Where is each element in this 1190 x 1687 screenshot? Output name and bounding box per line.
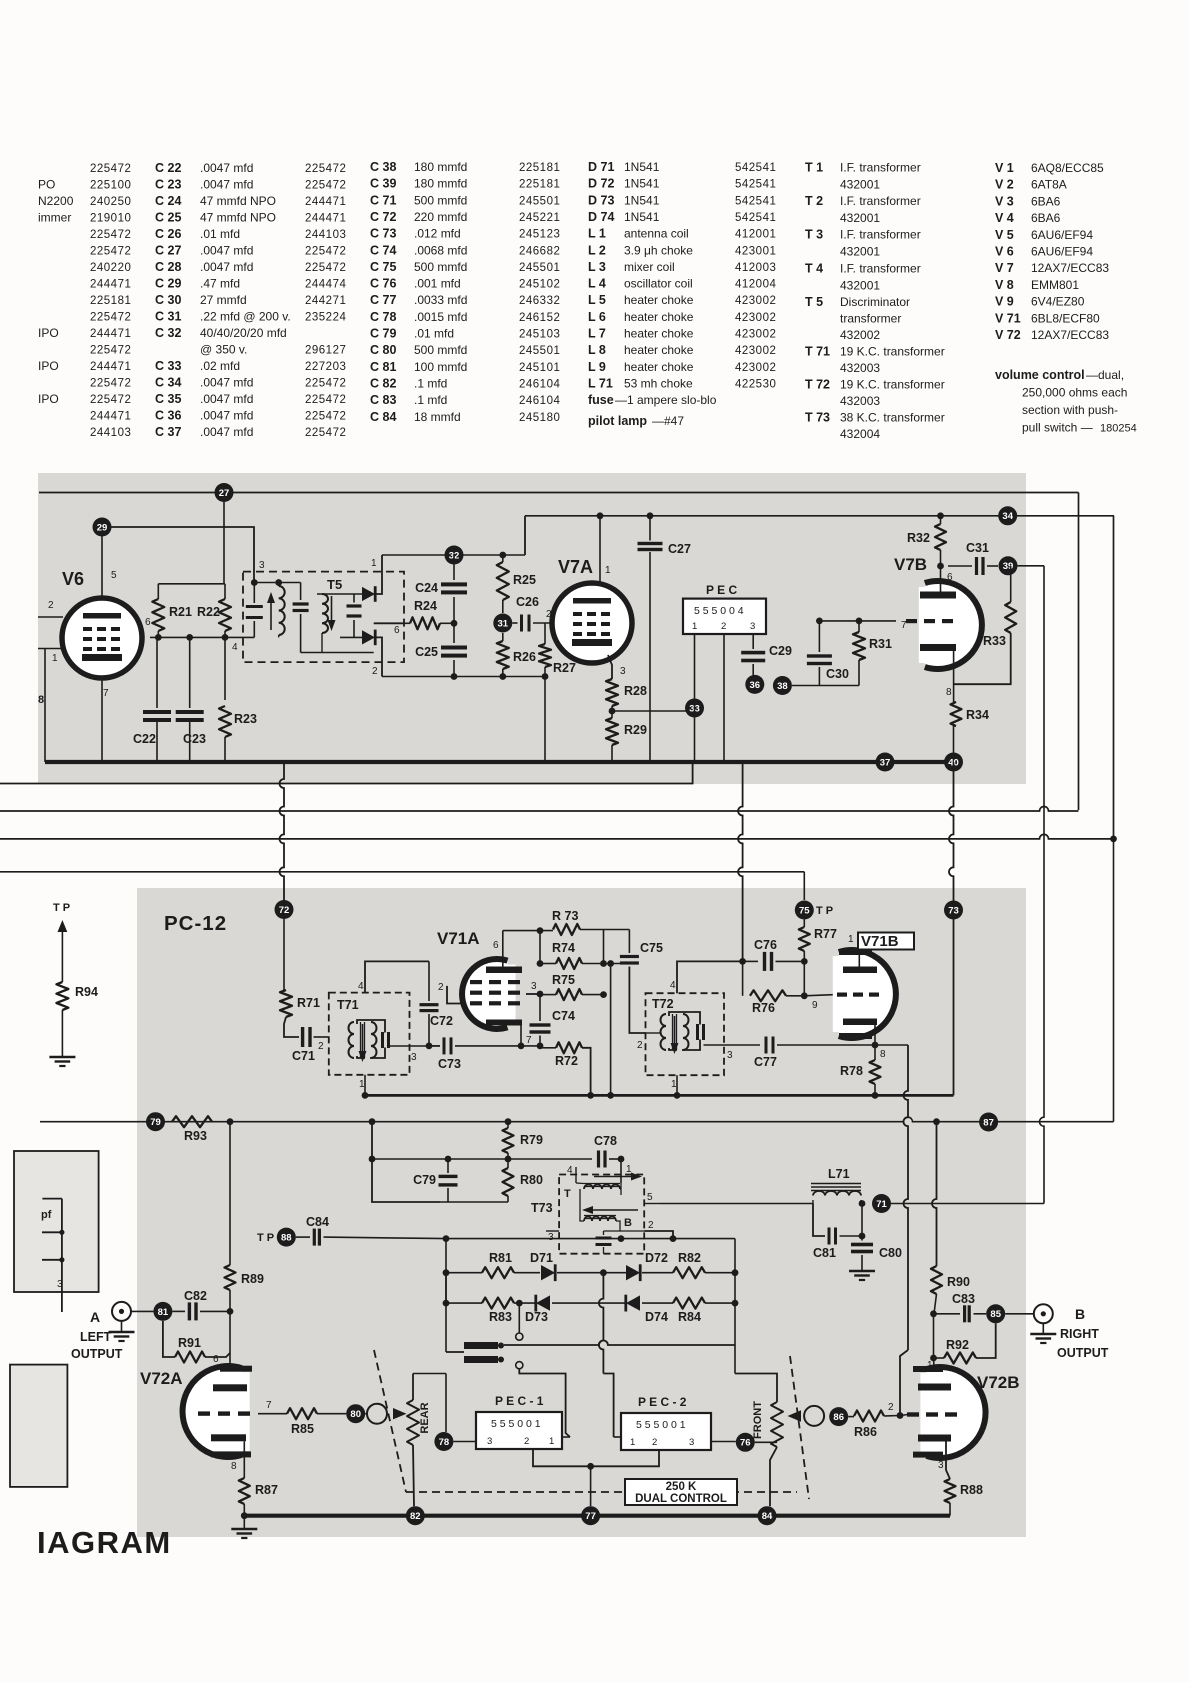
svg-text:80: 80: [350, 1409, 361, 1420]
svg-text:8: 8: [231, 1461, 237, 1472]
resistor R24: [410, 617, 440, 629]
svg-text:.1 mfd: .1 mfd: [414, 376, 447, 390]
svg-text:C 39: C 39: [370, 177, 396, 191]
wire PEC pin3 to C29: [752, 634, 754, 649]
svg-text:75: 75: [799, 905, 810, 916]
wire 1044 corner to node 71 row: [882, 1203, 1045, 1205]
resistor R25: [497, 562, 509, 600]
svg-text:fuse: fuse: [588, 393, 614, 407]
diode D71: [541, 1265, 555, 1280]
svg-text:.0047 mfd: .0047 mfd: [200, 161, 253, 175]
svg-text:225472: 225472: [90, 229, 131, 241]
svg-text:6BA6: 6BA6: [1031, 194, 1061, 208]
svg-text:OUTPUT: OUTPUT: [1057, 1346, 1109, 1360]
svg-text:PC-12: PC-12: [164, 912, 227, 935]
svg-text:—dual,: —dual,: [1086, 368, 1124, 382]
svg-text:REAR: REAR: [419, 1402, 431, 1433]
svg-text:R77: R77: [814, 927, 837, 941]
svg-text:C71: C71: [292, 1049, 315, 1063]
left partial box upper: [14, 1151, 99, 1292]
wire left vertical to ground bus: [44, 649, 46, 763]
node 34: [998, 506, 1017, 525]
wire rear pot top to node78 riser: [413, 1373, 446, 1375]
svg-text:2: 2: [524, 1436, 529, 1447]
svg-text:C 84: C 84: [370, 410, 396, 424]
T72 pin3 exit to C77: [704, 1044, 761, 1046]
wire V7B cathode drop x=954 through node 73: [949, 762, 954, 1095]
svg-text:B: B: [624, 1217, 632, 1229]
V72A pin7 grid wire: [258, 1413, 287, 1415]
svg-text:88: 88: [281, 1233, 292, 1244]
svg-text:C 74: C 74: [370, 243, 396, 257]
wire V7B pin7 row: [819, 620, 896, 622]
T72 pin1 drop: [676, 1075, 678, 1095]
svg-text:38: 38: [777, 681, 788, 692]
svg-text:246104: 246104: [519, 395, 560, 407]
T72 pin4 riser: [677, 961, 743, 993]
svg-text:423002: 423002: [735, 295, 776, 307]
V7B cathode bar: [920, 644, 956, 651]
resistor R85: [287, 1408, 317, 1419]
V71A anode bar: [486, 967, 522, 974]
svg-text:C 83: C 83: [370, 393, 396, 407]
svg-text:C29: C29: [769, 644, 792, 658]
svg-text:pull switch —: pull switch —: [1022, 421, 1093, 435]
svg-text:7: 7: [103, 688, 109, 699]
svg-text:432001: 432001: [840, 211, 880, 225]
svg-text:L 7: L 7: [588, 327, 606, 341]
V72A anode bar: [213, 1384, 247, 1391]
svg-text:C 78: C 78: [370, 310, 396, 324]
svg-text:542541: 542541: [735, 179, 776, 191]
wire top B+ bus: [39, 492, 1079, 494]
resistor R72: [556, 1042, 582, 1053]
svg-text:R85: R85: [291, 1422, 314, 1436]
wire R73 to R74 link: [539, 931, 541, 964]
resistor R77: [803, 920, 805, 928]
output B connector: [1034, 1304, 1053, 1323]
svg-text:D71: D71: [530, 1251, 553, 1265]
resistor R92 row: [933, 1314, 935, 1358]
V71A pin6 riser: [502, 931, 504, 967]
wire bottom ground bus (thick): [245, 1514, 950, 1518]
svg-text:412001: 412001: [735, 229, 776, 241]
resistor R93: [172, 1116, 212, 1127]
svg-text:542541: 542541: [735, 195, 776, 207]
wire R90 to C83 row: [930, 1310, 937, 1317]
svg-text:D72: D72: [645, 1251, 668, 1265]
T71 pin3 exit: [389, 1045, 441, 1047]
svg-text:R89: R89: [241, 1272, 264, 1286]
svg-text:C 23: C 23: [155, 178, 181, 192]
tube V7A: [552, 583, 632, 663]
svg-text:250,000 ohms each: 250,000 ohms each: [1022, 386, 1127, 400]
resistor R79: [507, 1122, 509, 1128]
node 31: [493, 614, 512, 633]
wire PEC-2 pin3 to node 76: [711, 1441, 736, 1443]
resistor R28: [606, 679, 618, 706]
svg-text:225472: 225472: [90, 312, 131, 324]
resistor R81: [446, 1272, 482, 1274]
node 72: [275, 900, 294, 919]
svg-text:1: 1: [605, 565, 611, 576]
svg-text:47 mmfd NPO: 47 mmfd NPO: [200, 211, 276, 225]
svg-text:heater choke: heater choke: [624, 310, 694, 324]
ground below R94: [49, 1056, 75, 1059]
node 39: [999, 556, 1018, 575]
transformer T71 dashed enclosure: [329, 993, 410, 1075]
svg-text:244471: 244471: [90, 361, 131, 373]
svg-text:27 mmfd: 27 mmfd: [200, 293, 247, 307]
resistor R31: [853, 632, 865, 660]
resistor R22: [219, 599, 231, 631]
wire node76 to FRONT pot: [755, 1441, 777, 1443]
svg-text:T5: T5: [327, 577, 342, 592]
svg-text:432001: 432001: [840, 245, 880, 259]
ganged control dashed linkage: [374, 1350, 406, 1492]
wire centre tap drop to PEC-2: [599, 1273, 604, 1374]
svg-text:C 35: C 35: [155, 392, 181, 406]
ground at output A: [121, 1321, 123, 1331]
svg-text:R75: R75: [552, 973, 575, 987]
svg-text:5 5 5 0 0 1: 5 5 5 0 0 1: [636, 1419, 686, 1431]
svg-text:81: 81: [158, 1307, 169, 1318]
resistor R29: [606, 718, 618, 745]
svg-text:T 3: T 3: [805, 228, 823, 242]
PEC-2 box: [621, 1413, 711, 1450]
svg-text:246152: 246152: [519, 312, 560, 324]
node 73: [944, 901, 963, 920]
capacitor C30 riser: [818, 667, 820, 686]
wire right drop from top bus to bus line 1: [1078, 493, 1080, 811]
svg-text:R91: R91: [178, 1336, 201, 1350]
resistor R21: [152, 599, 164, 631]
svg-text:500 mmfd: 500 mmfd: [414, 193, 467, 207]
svg-text:R94: R94: [75, 985, 98, 999]
node 36: [745, 675, 764, 694]
svg-text:C 24: C 24: [155, 194, 181, 208]
T5 coupling cap: [300, 583, 302, 601]
svg-text:heater choke: heater choke: [624, 360, 694, 374]
svg-text:245101: 245101: [519, 362, 560, 374]
REAR pot arrow: [393, 1408, 407, 1419]
svg-text:225472: 225472: [305, 394, 346, 406]
svg-text:244271: 244271: [305, 295, 346, 307]
capacitor C74: [530, 1023, 551, 1026]
svg-text:C 30: C 30: [155, 293, 181, 307]
svg-text:3: 3: [487, 1436, 492, 1447]
svg-text:180254: 180254: [1100, 423, 1137, 435]
svg-text:12AX7/ECC83: 12AX7/ECC83: [1031, 328, 1109, 342]
wire V6 pin7 to ground bus: [101, 678, 103, 762]
svg-text:3: 3: [750, 621, 755, 632]
capacitor C78: [597, 1151, 600, 1168]
svg-text:L71: L71: [828, 1167, 850, 1181]
svg-text:245103: 245103: [519, 329, 560, 341]
svg-text:IAGRAM: IAGRAM: [37, 1525, 172, 1560]
svg-text:225472: 225472: [305, 180, 346, 192]
svg-text:R87: R87: [255, 1483, 278, 1497]
svg-text:V71A: V71A: [437, 929, 480, 948]
svg-text:R88: R88: [960, 1483, 983, 1497]
svg-text:31: 31: [498, 618, 509, 629]
svg-text:.001 mfd: .001 mfd: [414, 277, 461, 291]
svg-text:C31: C31: [966, 541, 989, 555]
svg-text:85: 85: [990, 1309, 1001, 1320]
capacitor C26: [512, 622, 517, 624]
T72 pin2 entry: [646, 1032, 662, 1034]
wire PEC pin2 column: [723, 634, 725, 762]
svg-text:C 80: C 80: [370, 343, 396, 357]
svg-text:heater choke: heater choke: [624, 343, 694, 357]
svg-text:—1 ampere slo-blo: —1 ampere slo-blo: [615, 393, 717, 407]
wire C22 column: [156, 637, 158, 708]
svg-text:V7B: V7B: [894, 555, 927, 574]
svg-text:100 mmfd: 100 mmfd: [414, 360, 467, 374]
svg-text:432001: 432001: [840, 178, 880, 192]
svg-text:C25: C25: [415, 645, 438, 659]
svg-text:C79: C79: [413, 1173, 436, 1187]
wire PEC-2 pin2 drop: [591, 1450, 659, 1466]
svg-text:V7A: V7A: [558, 557, 593, 577]
svg-text:.01 mfd: .01 mfd: [414, 327, 454, 341]
svg-text:heater choke: heater choke: [624, 327, 694, 341]
svg-text:.0047 mfd: .0047 mfd: [200, 178, 253, 192]
svg-text:244103: 244103: [90, 427, 131, 439]
svg-text:1: 1: [630, 1437, 635, 1448]
T73 bottom unit arrow: [582, 1206, 593, 1214]
svg-text:L 71: L 71: [588, 376, 613, 390]
T5 primary coil: [279, 586, 285, 635]
svg-text:R33: R33: [983, 634, 1006, 648]
svg-text:V 6: V 6: [995, 245, 1014, 259]
node 86: [829, 1407, 848, 1426]
svg-text:C77: C77: [754, 1055, 777, 1069]
svg-text:225472: 225472: [90, 246, 131, 258]
svg-text:38 K.C. transformer: 38 K.C. transformer: [840, 411, 945, 425]
wire node29 horizontal to T5 pin3: [102, 527, 254, 583]
svg-text:C 25: C 25: [155, 211, 181, 225]
svg-text:T73: T73: [531, 1201, 553, 1215]
node 27 drop wire: [223, 493, 225, 584]
svg-text:40/40/20/20 mfd: 40/40/20/20 mfd: [200, 326, 287, 340]
svg-text:.012 mfd: .012 mfd: [414, 227, 461, 241]
svg-text:C 76: C 76: [370, 277, 396, 291]
lower circuit shaded region PC-12: [137, 888, 1026, 1537]
svg-text:C22: C22: [133, 732, 156, 746]
wire T73 pin5 to L71 row: [660, 1203, 813, 1205]
svg-text:C 38: C 38: [370, 160, 396, 174]
svg-text:250 K: 250 K: [666, 1481, 697, 1493]
svg-text:71: 71: [876, 1199, 887, 1210]
svg-text:3: 3: [620, 666, 626, 677]
T5 pin6 exit wire: [374, 622, 404, 624]
svg-text:C26: C26: [516, 595, 539, 609]
capacitor C83: [963, 1305, 966, 1322]
FRONT pot arrow: [788, 1410, 802, 1421]
svg-text:412003: 412003: [735, 262, 776, 274]
svg-text:D 74: D 74: [588, 210, 614, 224]
wire C78 into T73 pin1: [620, 1159, 622, 1183]
svg-text:225472: 225472: [90, 345, 131, 357]
svg-text:V 1: V 1: [995, 161, 1014, 175]
wire bus line 2: [0, 834, 1114, 839]
svg-text:C 79: C 79: [370, 327, 396, 341]
svg-text:6: 6: [493, 940, 499, 951]
svg-text:180 mmfd: 180 mmfd: [414, 177, 467, 191]
wire PEC-1 pin1 lead: [562, 1436, 570, 1438]
T5 tuning arrow: [270, 600, 272, 630]
svg-text:.0047 mfd: .0047 mfd: [200, 392, 253, 406]
svg-text:12AX7/ECC83: 12AX7/ECC83: [1031, 261, 1109, 275]
svg-text:oscillator coil: oscillator coil: [624, 277, 693, 291]
svg-text:C75: C75: [640, 941, 663, 955]
svg-text:6: 6: [145, 617, 151, 628]
svg-text:pf: pf: [41, 1209, 52, 1221]
svg-text:422530: 422530: [735, 378, 776, 390]
svg-text:R81: R81: [489, 1251, 512, 1265]
svg-text:2: 2: [721, 621, 726, 632]
T73 bottom unit core and coil: [584, 1215, 616, 1217]
svg-text:4: 4: [670, 980, 676, 991]
svg-text:C 77: C 77: [370, 293, 396, 307]
svg-text:3: 3: [57, 1278, 63, 1290]
ground below bus at R87: [243, 1516, 245, 1528]
svg-text:R22: R22: [197, 605, 220, 619]
svg-text:244471: 244471: [90, 411, 131, 423]
V72B anode bar: [918, 1384, 951, 1391]
svg-text:T P: T P: [816, 905, 833, 917]
svg-text:18 mmfd: 18 mmfd: [414, 410, 461, 424]
svg-text:FRONT: FRONT: [752, 1401, 764, 1439]
wire node29 riser from V6 pin 5: [101, 536, 103, 598]
svg-text:C 29: C 29: [155, 277, 181, 291]
svg-text:C 26: C 26: [155, 227, 181, 241]
capacitor C25: [441, 646, 467, 650]
wire main top ground bus (thick): [45, 760, 954, 764]
V72A grid dashes: [198, 1411, 210, 1415]
node 32: [445, 546, 464, 565]
T72 windings: [661, 1014, 667, 1050]
svg-text:1N541: 1N541: [624, 210, 660, 224]
svg-text:OUTPUT: OUTPUT: [71, 1347, 123, 1361]
svg-text:219010: 219010: [90, 213, 131, 225]
wire R28 R29 junction to node 33: [611, 706, 613, 718]
svg-text:R83: R83: [489, 1310, 512, 1324]
tube V6: [62, 598, 142, 678]
wire T5 pin2 bottom row: [382, 676, 545, 678]
wire R74 drop to PC12 ground: [610, 964, 612, 1096]
wire V72B grid entry: [900, 1415, 908, 1416]
svg-text:2: 2: [637, 1040, 643, 1051]
svg-text:C24: C24: [415, 581, 438, 595]
T5 pin1 exit wire: [376, 555, 383, 594]
FRONT pot wiper: [804, 1406, 824, 1426]
svg-text:C 28: C 28: [155, 260, 181, 274]
svg-text:500 mmfd: 500 mmfd: [414, 343, 467, 357]
svg-text:R 73: R 73: [552, 909, 578, 923]
T73 pin3 stub: [546, 1230, 559, 1232]
resistor R71: [280, 990, 292, 1017]
svg-text:73: 73: [948, 905, 959, 916]
wire discriminator feed row y=1238.6: [446, 1238, 735, 1240]
T73 cap: [596, 1237, 612, 1240]
svg-text:3: 3: [531, 981, 537, 992]
svg-text:EMM801: EMM801: [1031, 278, 1079, 292]
T5 pin2 exit wire: [376, 637, 383, 676]
wire R23 column: [224, 637, 226, 700]
T71 trimmer cap: [381, 1032, 384, 1048]
svg-text:C84: C84: [306, 1215, 329, 1229]
resistor R89: [225, 1265, 236, 1290]
svg-text:6: 6: [394, 625, 400, 636]
REAR pot wiper: [367, 1404, 387, 1424]
PEC box: [683, 599, 766, 634]
T5 secondary coil: [322, 594, 328, 633]
svg-text:5 5 5 0 0 1: 5 5 5 0 0 1: [491, 1418, 541, 1430]
switch wiper feed: [446, 1351, 464, 1353]
svg-text:6V4/EZ80: 6V4/EZ80: [1031, 295, 1085, 309]
svg-text:C76: C76: [754, 938, 777, 952]
node 85: [986, 1304, 1005, 1323]
svg-text:.47 mfd: .47 mfd: [200, 277, 240, 291]
svg-text:LEFT: LEFT: [80, 1330, 112, 1344]
resistor R27: [539, 644, 551, 667]
svg-text:antenna coil: antenna coil: [624, 227, 689, 241]
svg-text:432003: 432003: [840, 394, 880, 408]
svg-text:T 4: T 4: [805, 262, 823, 276]
left box internal lines: [42, 1199, 62, 1312]
V7B anode bar: [920, 592, 956, 599]
node 81: [153, 1302, 172, 1321]
wire node38 to C30 riser: [792, 685, 859, 687]
FRONT pot resistor: [771, 1402, 783, 1447]
wire V7B pin6 riser and R32: [940, 516, 942, 524]
svg-text:C73: C73: [438, 1057, 461, 1071]
svg-text:1N541: 1N541: [624, 193, 660, 207]
svg-text:76: 76: [740, 1438, 751, 1449]
resistor R23: [219, 706, 231, 737]
svg-text:T P: T P: [257, 1232, 274, 1244]
wire PEC pin1 column: [694, 634, 696, 762]
tube V72A: [183, 1366, 242, 1457]
svg-text:R21: R21: [169, 605, 192, 619]
svg-text:.0047 mfd: .0047 mfd: [200, 425, 253, 439]
svg-text:500 mmfd: 500 mmfd: [414, 260, 467, 274]
svg-text:C 27: C 27: [155, 244, 181, 258]
svg-text:V 72: V 72: [995, 328, 1021, 342]
diode D72: [603, 1272, 626, 1274]
svg-text:225472: 225472: [90, 394, 131, 406]
resistor R73: [553, 924, 580, 935]
diode matrix right riser x=735: [734, 1239, 736, 1345]
V72B cathode bar: [918, 1435, 951, 1442]
svg-text:C30: C30: [826, 667, 849, 681]
V71A pin2 wire: [447, 986, 461, 1004]
resistor R90: [931, 1266, 942, 1294]
svg-text:PO: PO: [38, 178, 55, 192]
V72B arc bottom end bar: [913, 1452, 943, 1458]
svg-text:.01 mfd: .01 mfd: [200, 227, 240, 241]
svg-text:V72A: V72A: [140, 1369, 183, 1388]
tube V71A: [462, 959, 507, 1029]
svg-text:C80: C80: [879, 1246, 902, 1260]
svg-text:2: 2: [652, 1437, 657, 1448]
svg-text:T 72: T 72: [805, 378, 830, 392]
V71A cathode bar: [486, 1020, 522, 1026]
svg-text:P E C - 2: P E C - 2: [638, 1395, 687, 1409]
svg-text:V 5: V 5: [995, 228, 1014, 242]
